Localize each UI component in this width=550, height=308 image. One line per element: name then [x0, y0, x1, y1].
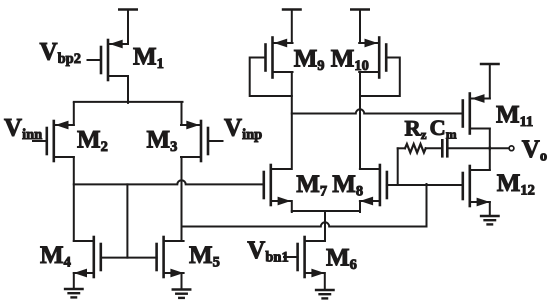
svg-text:M10: M10: [331, 46, 369, 75]
wire M3 drain to M5 drain: [181, 157, 183, 241]
wire tail rail to M6 drain: [324, 211, 326, 241]
wire M2 drain to M4 drain: [73, 157, 75, 241]
capacitor Cm: [442, 140, 447, 156]
transistor M2: [33, 121, 74, 161]
svg-text:M6: M6: [326, 245, 357, 274]
wire Rz tap down to gate line: [397, 148, 399, 185]
svg-text:Rz: Rz: [405, 116, 427, 143]
svg-text:M3: M3: [147, 127, 178, 156]
svg-text:M1: M1: [133, 44, 164, 73]
wire M9 drain node to M11 gate (hops over M10 drain): [292, 109, 463, 113]
wire M7 source down: [291, 201, 293, 212]
svg-text:Vinn: Vinn: [4, 114, 42, 143]
wire M8 gate to M12 gate: [387, 184, 463, 186]
resistor Rz: [398, 144, 442, 153]
transistor M4: [74, 237, 101, 277]
svg-text:Vbp2: Vbp2: [40, 38, 81, 67]
wire M8 source down: [359, 201, 361, 212]
svg-text:M7: M7: [296, 171, 327, 200]
wire M10 drain to M8 drain: [359, 72, 361, 169]
transistor M10: [359, 38, 400, 97]
wire M1 drain to diff-pair source rail: [127, 76, 129, 103]
wire Cm to output node: [447, 147, 509, 149]
svg-text:Vbn1: Vbn1: [247, 237, 288, 266]
svg-text:M9: M9: [294, 46, 325, 75]
transistor M6: [284, 237, 325, 277]
ground (M4 source): [65, 273, 83, 297]
transistor M7: [264, 165, 291, 205]
VDD rail above M10: [351, 10, 368, 44]
node Vo output terminal: [509, 146, 514, 151]
wire M4 gate to M5 gate: [101, 257, 157, 259]
ground (M5 source): [173, 273, 191, 298]
ground (M12 source): [481, 202, 499, 224]
VDD rail above M11: [481, 64, 498, 99]
svg-text:M5: M5: [189, 242, 220, 271]
svg-text:Cm: Cm: [430, 115, 457, 142]
wire M2 source up: [73, 103, 75, 125]
ground (M6 source): [316, 273, 334, 298]
transistor M12: [463, 166, 490, 206]
svg-text:M8: M8: [332, 171, 363, 200]
wire tap to M4-M5 gates: [126, 184, 128, 257]
wire M9 drain to M7 drain: [291, 72, 293, 169]
wire first-stage output to M8/M12 gate branch (hops over M6 drain): [182, 184, 427, 227]
transistor M5: [157, 237, 184, 277]
VDD rail above M1: [119, 10, 136, 45]
transistor M9: [250, 38, 293, 97]
wire M7/M8 common-source rail: [292, 210, 360, 212]
VDD rail above M9: [283, 10, 300, 44]
svg-text:M11: M11: [496, 102, 533, 131]
svg-text:M2: M2: [77, 126, 108, 155]
svg-text:M12: M12: [497, 170, 535, 199]
transistor M11: [463, 94, 490, 134]
transistor M1: [88, 40, 129, 80]
wire M3 source up: [181, 103, 183, 125]
svg-text:Vo: Vo: [522, 136, 547, 165]
svg-text:M4: M4: [40, 242, 71, 271]
transistor M3: [181, 121, 223, 161]
wire M12 drain to output: [489, 147, 491, 170]
wire M11 drain to output: [489, 129, 491, 150]
wire M2 drain node to M7 gate (hops over M3 drain): [74, 180, 264, 184]
svg-text:Vinp: Vinp: [224, 115, 262, 144]
wire diff-pair source rail: [74, 101, 183, 103]
transistor M8: [360, 165, 387, 205]
